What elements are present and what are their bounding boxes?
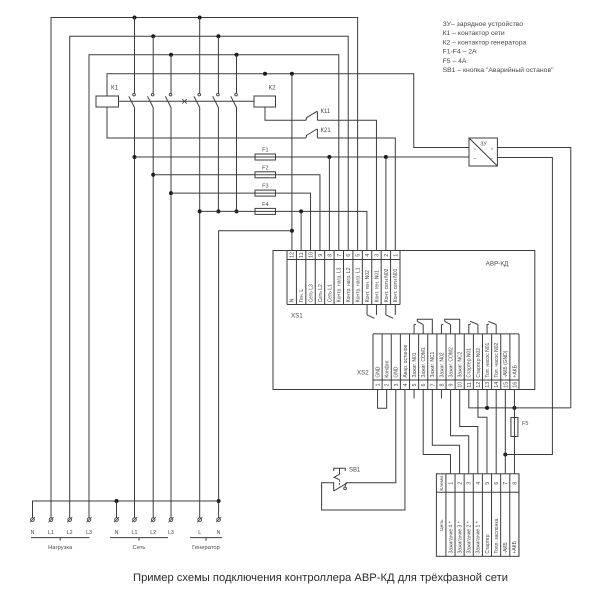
wire XS2 pin 11 to +АКБ rail bbox=[469, 390, 571, 408]
svg-text:Зажиг. COM2: Зажиг. COM2 bbox=[448, 347, 454, 378]
svg-text:Контр. нагр. L2: Контр. нагр. L2 bbox=[346, 267, 352, 302]
group bracket Сеть bbox=[110, 537, 168, 539]
svg-text:К11: К11 bbox=[321, 109, 331, 115]
wire XS2 pin 7 to terminal 2 bbox=[432, 390, 459, 474]
relay contact Конт.сети (below XS1 pins 2-1) bbox=[385, 305, 387, 315]
node junction N bus / mains N stub bbox=[115, 499, 119, 503]
svg-text:F1-F4 – 2А: F1-F4 – 2А bbox=[443, 49, 477, 56]
svg-text:13: 13 bbox=[485, 382, 491, 388]
svg-text:Цепь: Цепь bbox=[439, 519, 445, 531]
svg-text:F4: F4 bbox=[262, 202, 268, 208]
node junction XS2 pin 16 / +АКБ rail bbox=[512, 406, 516, 410]
svg-text:7: 7 bbox=[430, 384, 436, 387]
aux contact K21 bbox=[305, 135, 308, 138]
wire K2 coil bottom to K11 contact bbox=[265, 107, 306, 120]
wire XS2 pin 13 to +АКБ rail bbox=[486, 390, 488, 408]
svg-text:Сеть L1: Сеть L1 bbox=[327, 284, 333, 302]
connector XS1 body bbox=[286, 251, 288, 305]
svg-text:1: 1 bbox=[393, 254, 399, 257]
svg-text:4: 4 bbox=[365, 254, 371, 257]
svg-text:GND: GND bbox=[394, 366, 400, 378]
terminal block body bbox=[436, 474, 519, 557]
svg-text:Конт. сети N02: Конт. сети N02 bbox=[384, 268, 390, 302]
svg-text:F5 – 4А: F5 – 4А bbox=[443, 58, 467, 65]
svg-text:8: 8 bbox=[512, 482, 518, 485]
node junction F1 / XS1 pin 2 bbox=[384, 155, 388, 159]
svg-text:14: 14 bbox=[494, 382, 500, 388]
svg-text:15: 15 bbox=[503, 382, 509, 388]
wire XS2 pin 5 stub bbox=[413, 390, 415, 399]
svg-text:L3: L3 bbox=[168, 530, 174, 536]
svg-text:7: 7 bbox=[337, 254, 343, 257]
svg-text:2: 2 bbox=[458, 482, 464, 485]
wire XS2 pin 14 to terminal 6 bbox=[495, 390, 497, 474]
node junction load L1 / contact K1.1 bbox=[133, 16, 137, 20]
svg-text:Зажигание 3 *: Зажигание 3 * bbox=[457, 521, 463, 553]
svg-text:Конт. ген. N01: Конт. ген. N01 bbox=[374, 270, 380, 302]
terminal Генератор N bbox=[217, 518, 221, 522]
svg-text:Топл. заслонка: Топл. заслонка bbox=[494, 518, 500, 553]
svg-text:L2: L2 bbox=[67, 530, 73, 536]
wire mains L2 (contact K1.2 to Сеть L2 terminal) bbox=[152, 108, 154, 518]
svg-text:6: 6 bbox=[421, 384, 427, 387]
svg-text:N: N bbox=[115, 530, 119, 536]
connector XS2 body bbox=[372, 334, 374, 390]
relay contact Зажиг.2 (above XS2 pins 8-9-10) bbox=[441, 324, 443, 334]
svg-text:7: 7 bbox=[503, 482, 509, 485]
svg-text:8: 8 bbox=[327, 254, 333, 257]
svg-text:5: 5 bbox=[412, 384, 418, 387]
relay contact Зажиг.1 (above XS2 pins 5-6-7) bbox=[414, 324, 416, 334]
svg-text:Топ. насос N01: Топ. насос N01 bbox=[485, 343, 491, 378]
svg-text:1: 1 bbox=[376, 384, 382, 387]
svg-text:+АКБ: +АКБ bbox=[512, 364, 518, 377]
wire XS2 pin 4 to SB1 loop bbox=[322, 390, 405, 511]
terminal Генератор L bbox=[198, 518, 202, 522]
svg-text:L2: L2 bbox=[150, 530, 156, 536]
charger ЗУ box bbox=[469, 138, 497, 166]
wire XS2 pin 9 to terminal 3 bbox=[451, 390, 469, 474]
svg-text:К1: К1 bbox=[111, 85, 119, 92]
wire ЗУ + output to +АКБ rail bbox=[497, 148, 570, 408]
wire XS2 pin 12 to terminal 5 bbox=[478, 390, 487, 474]
svg-text:Стартер N02: Стартер N02 bbox=[476, 348, 482, 378]
wire bottom N bus bbox=[33, 501, 219, 518]
svg-text:XS1: XS1 bbox=[291, 313, 303, 320]
emergency stop button SB1 bbox=[334, 468, 346, 471]
wire load L1 net (Нагрузка L1 to XS1 pin 5) bbox=[51, 18, 358, 518]
svg-text:Зажиг. N02: Зажиг. N02 bbox=[439, 352, 445, 377]
group bracket Нагрузка bbox=[31, 537, 90, 539]
node junction generator N / bottom N bus bbox=[217, 499, 221, 503]
aux contact K11 bbox=[305, 118, 308, 121]
contact K2.2 (gen) bbox=[217, 36, 219, 93]
svg-text:Контр. нагр. L3: Контр. нагр. L3 bbox=[337, 267, 343, 302]
svg-text:К2 – контактор генератора: К2 – контактор генератора bbox=[443, 39, 527, 46]
svg-text:11: 11 bbox=[467, 382, 473, 388]
svg-text:9: 9 bbox=[318, 254, 324, 257]
node junction neutral / K2 coil bbox=[263, 72, 267, 76]
node junction -АКБ / XS2 pin 15 bbox=[503, 453, 507, 457]
contact K1.2 (mains L2) bbox=[152, 36, 154, 93]
svg-text:Конфиг.: Конфиг. bbox=[385, 360, 391, 378]
contact K2.3 (gen) bbox=[236, 55, 238, 93]
svg-text:Зажигание 1 *: Зажигание 1 * bbox=[476, 521, 482, 553]
svg-text:Генератор: Генератор bbox=[192, 545, 220, 551]
svg-text:10: 10 bbox=[309, 252, 315, 258]
terminal Сеть L2 bbox=[151, 518, 155, 522]
wire XS1 pin 2 drop bbox=[385, 157, 387, 251]
wire mechanical linkage K1-K2 bbox=[119, 100, 255, 102]
node junction load L3 / contact K2.3 bbox=[235, 53, 239, 57]
node junction N vertical / generator N line bbox=[290, 229, 294, 233]
wire XS1 pin 11 drop bbox=[300, 211, 302, 250]
node junction XS2 pin 13 / +АКБ rail bbox=[485, 406, 489, 410]
svg-text:К2: К2 bbox=[269, 85, 277, 92]
wire K11 to XS1 pin 3 bbox=[317, 120, 376, 250]
fuse F5 bbox=[511, 418, 518, 437]
svg-text:Нагрузка: Нагрузка bbox=[48, 545, 73, 551]
svg-text:Зажиг. NC1: Зажиг. NC1 bbox=[430, 351, 436, 377]
fuse F2 bbox=[255, 172, 276, 178]
svg-text:Топ. насос N02: Топ. насос N02 bbox=[494, 343, 500, 378]
group bracket Генератор bbox=[190, 537, 222, 539]
svg-text:L: L bbox=[198, 530, 201, 536]
svg-text:Зажиг. N01: Зажиг. N01 bbox=[412, 352, 418, 377]
svg-text:3: 3 bbox=[467, 482, 473, 485]
svg-text:F3: F3 bbox=[262, 184, 268, 190]
svg-text:SB1: SB1 bbox=[349, 468, 361, 474]
svg-text:Конт. ген. N02: Конт. ген. N02 bbox=[365, 270, 371, 302]
wire fuse F3 row (mains L3 to XS1 pin 10) bbox=[171, 193, 311, 250]
svg-text:N: N bbox=[290, 298, 296, 302]
svg-text:L3: L3 bbox=[86, 530, 92, 536]
node junction mains L3 / fuse F3 bbox=[169, 191, 173, 195]
contactor coil K1 bbox=[96, 96, 119, 107]
relay contact Стартер (above XS2 pins 11-12) bbox=[469, 324, 471, 334]
wire N vertical to XS1 pin 12 bbox=[291, 74, 293, 251]
svg-text:Сеть: Сеть bbox=[133, 545, 146, 551]
relay contact Конт.ген (below XS1 pins 4-3) bbox=[366, 305, 368, 315]
node junction load L1 / contact K2.1 bbox=[198, 16, 202, 20]
terminal Нагрузка L3 bbox=[87, 518, 91, 522]
terminal Нагрузка L1 bbox=[49, 518, 53, 522]
node junction gen L / gen bus bbox=[198, 209, 202, 213]
svg-text:4: 4 bbox=[476, 482, 482, 485]
svg-text:L1: L1 bbox=[48, 530, 54, 536]
svg-text:Ген. L: Ген. L bbox=[299, 289, 305, 303]
node junction F4 / XS1 pin 11 bbox=[299, 209, 303, 213]
wire neutral bus (K1 coil top - K2 coil top - XS1 pin 12 - ЗУ input) bbox=[107, 74, 469, 148]
wire XS1 pin 8 drop bbox=[328, 157, 330, 251]
node junction load L3 / contact K1.3 bbox=[169, 53, 173, 57]
svg-text:Клемм.: Клемм. bbox=[439, 474, 445, 491]
svg-text:АВР-КД: АВР-КД bbox=[486, 261, 509, 268]
terminal Нагрузка L2 bbox=[68, 518, 72, 522]
node junction load L2 / contact K2.2 bbox=[216, 34, 220, 38]
svg-text:4: 4 bbox=[403, 384, 409, 387]
svg-text:N: N bbox=[31, 530, 35, 536]
terminal Сеть N bbox=[115, 518, 119, 522]
svg-text:3: 3 bbox=[374, 254, 380, 257]
svg-text:GND: GND bbox=[375, 366, 381, 378]
wire XS2 pin 10 to terminal 4 bbox=[460, 390, 478, 474]
wire fuse F2 row (mains L2 to XS1 pin 9) bbox=[153, 175, 320, 251]
svg-text:L1: L1 bbox=[132, 530, 138, 536]
svg-text:N: N bbox=[217, 530, 221, 536]
terminal Нагрузка N bbox=[31, 518, 35, 522]
svg-text:Зажигание 4 *: Зажигание 4 * bbox=[448, 521, 454, 553]
svg-text:Авар. останов: Авар. останов bbox=[403, 344, 409, 377]
wire generator N (terminal to XS1 pin 12 line) bbox=[219, 231, 292, 518]
controller АВР-КД box bbox=[273, 251, 535, 390]
svg-text:ЗУ– зарядное устройство: ЗУ– зарядное устройство bbox=[443, 20, 524, 28]
svg-text:12: 12 bbox=[290, 252, 296, 258]
wire contact K2.3 bottom to gen bus bbox=[236, 108, 238, 212]
svg-text:8: 8 bbox=[439, 384, 445, 387]
contact K1.3 (mains L3) bbox=[170, 55, 172, 93]
wire ЗУ - output to -АКБ line bbox=[497, 158, 552, 455]
svg-text:SB1 – кнопка "Аварийный остано: SB1 – кнопка "Аварийный останов" bbox=[443, 66, 554, 74]
svg-text:Пример схемы подключения контр: Пример схемы подключения контроллера АВР… bbox=[133, 572, 508, 584]
svg-text:5: 5 bbox=[485, 482, 491, 485]
terminal Сеть L1 bbox=[133, 518, 137, 522]
svg-text:9: 9 bbox=[449, 384, 455, 387]
wire XS2 pin 8 stub bbox=[440, 390, 442, 399]
svg-text:Сеть L3: Сеть L3 bbox=[308, 284, 314, 302]
svg-text:2: 2 bbox=[385, 384, 391, 387]
wire XS2 pin 16 through F5 to terminal 8 bbox=[513, 390, 515, 474]
svg-text:Контр. нагр. L1: Контр. нагр. L1 bbox=[356, 267, 362, 302]
svg-text:6: 6 bbox=[346, 254, 352, 257]
mechanical interlock x symbol bbox=[182, 99, 187, 104]
svg-text:К1 – контактор сети: К1 – контактор сети bbox=[443, 30, 505, 37]
svg-text:Зажиг. NC2: Зажиг. NC2 bbox=[458, 351, 464, 377]
wire load L2 net (Нагрузка L2 to XS1 pin 6) bbox=[70, 36, 349, 518]
svg-text:F5: F5 bbox=[522, 421, 528, 427]
svg-text:Сеть L2: Сеть L2 bbox=[318, 284, 324, 302]
svg-text:К21: К21 bbox=[321, 128, 332, 134]
node junction K2.2 / gen bus bbox=[216, 209, 220, 213]
node junction mains L2 / fuse F2 bbox=[151, 173, 155, 177]
node junction F1 / XS1 pin 8 bbox=[327, 155, 331, 159]
node junction load L2 / contact K1.2 bbox=[151, 34, 155, 38]
wire XS2 pin 6 to terminal 1 bbox=[423, 390, 450, 474]
svg-text:6: 6 bbox=[494, 482, 500, 485]
svg-text:11: 11 bbox=[299, 252, 305, 258]
svg-text:10: 10 bbox=[458, 382, 464, 388]
svg-text:F2: F2 bbox=[262, 165, 268, 171]
svg-text:5: 5 bbox=[356, 254, 362, 257]
svg-text:Зажигание 2 *: Зажигание 2 * bbox=[467, 521, 473, 553]
fuse F1 bbox=[255, 154, 276, 160]
wire generator L (contact K2.1 to Генератор L terminal) bbox=[199, 108, 201, 518]
wire K1 coil bottom to K21 contact bbox=[107, 107, 306, 138]
svg-text:+: + bbox=[491, 147, 494, 152]
svg-text:−: − bbox=[491, 157, 494, 162]
svg-text:2: 2 bbox=[384, 254, 390, 257]
svg-text:-АКБ: -АКБ bbox=[503, 542, 509, 554]
wire fuse F4 gen bus (gen L to XS1 pin 4) bbox=[200, 211, 367, 250]
svg-text:3: 3 bbox=[394, 384, 400, 387]
svg-text:~: ~ bbox=[473, 147, 476, 152]
wire XS2 pin 15 to terminal 7 bbox=[504, 390, 506, 474]
contact K1.1 (mains L1) bbox=[134, 18, 136, 94]
svg-text:Стартер N01: Стартер N01 bbox=[467, 348, 473, 378]
wire K21 to XS1 pin 1 bbox=[317, 138, 395, 251]
contact K2.1 (gen) bbox=[199, 18, 201, 94]
svg-text:Зажиг. COM1: Зажиг. COM1 bbox=[421, 347, 427, 378]
wire load L3 net (Нагрузка L3 to XS1 pin 7) bbox=[89, 55, 339, 518]
wire mains N stub bbox=[116, 501, 118, 518]
svg-text:16: 16 bbox=[512, 382, 518, 388]
wire jumper XS2 pins 1-2 bbox=[378, 390, 387, 409]
svg-text:~: ~ bbox=[473, 157, 476, 162]
wire XS2 pin 3 to SB1 bbox=[346, 390, 396, 483]
svg-text:Конт. сети N01: Конт. сети N01 bbox=[393, 268, 399, 302]
fuse F4 bbox=[255, 208, 276, 214]
svg-text:ЗУ: ЗУ bbox=[480, 141, 487, 147]
fuse F3 bbox=[255, 190, 276, 196]
terminal Сеть L3 bbox=[169, 518, 173, 522]
relay contact Топ.насос (above XS2 pins 13-14) bbox=[487, 324, 489, 334]
wire mains L3 (contact K1.3 to Сеть L3 terminal) bbox=[170, 108, 172, 518]
wire fuse F1 row (mains L1 to XS1 pin 8, pin 2, ЗУ input) bbox=[135, 156, 470, 158]
svg-text:-АКБ (GND): -АКБ (GND) bbox=[503, 350, 509, 377]
svg-text:+АКБ: +АКБ bbox=[512, 540, 518, 553]
node junction mains L1 / fuse F1 bbox=[133, 155, 137, 159]
svg-text:12: 12 bbox=[476, 382, 482, 388]
node junction neutral / N vertical bbox=[290, 72, 294, 76]
svg-text:XS2: XS2 bbox=[357, 370, 369, 377]
contactor coil K2 bbox=[254, 96, 276, 107]
node junction K2.3 / gen bus bbox=[235, 209, 239, 213]
svg-text:1: 1 bbox=[448, 482, 454, 485]
svg-text:Стартер: Стартер bbox=[485, 534, 491, 553]
wire contact K2.2 bottom to gen bus bbox=[217, 108, 219, 212]
wire mains L1 (contact K1.1 to Сеть L1 terminal) bbox=[134, 108, 136, 518]
svg-text:F1: F1 bbox=[262, 148, 268, 154]
